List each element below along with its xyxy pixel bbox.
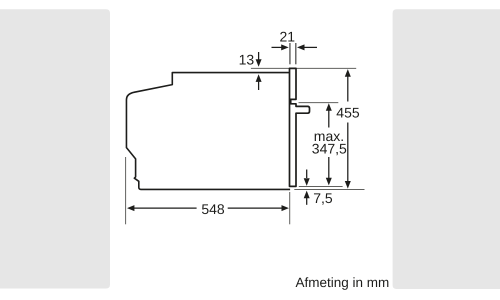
dimension 455 line — [345, 69, 351, 189]
dimension 21 right arrow — [297, 44, 317, 50]
right gray panel — [393, 9, 500, 289]
extension line 548 left (x=125.6) — [125, 157, 127, 224]
oven door + control panel + handle — [290, 68, 310, 186]
svg-text:455: 455 — [336, 105, 360, 121]
svg-text:Afmeting in mm: Afmeting in mm — [296, 275, 390, 290]
extension line 21 left (x=289.95) — [289, 43, 291, 64]
oven body outline — [126, 73, 290, 190]
extension line top (13/455 datum, y=68.35) — [251, 67, 356, 69]
svg-text:13: 13 — [239, 51, 255, 67]
dimension 347,5 line — [326, 103, 332, 185]
dimension 21 left arrow — [272, 44, 289, 50]
svg-text:347,5: 347,5 — [312, 141, 347, 157]
dimension 7,5 up arrow — [304, 191, 310, 205]
svg-text:21: 21 — [280, 28, 296, 44]
extension line door-bottom datum (y=186.45) — [299, 185, 343, 187]
extension line 21 right (x=295.85) — [295, 43, 297, 64]
svg-text:548: 548 — [201, 201, 225, 217]
dimension 13 down arrow — [256, 52, 262, 67]
extension line body-bottom datum (y=189.45) — [294, 188, 364, 190]
left gray panel — [0, 9, 110, 288]
label max. 347,5 — [312, 128, 347, 157]
svg-text:7,5: 7,5 — [313, 190, 333, 206]
extension line handle-top datum (y=102.65) — [299, 102, 339, 104]
dimension 13 up arrow — [256, 74, 262, 90]
extension line 548 right (x=290.2) — [289, 192, 291, 224]
dimension 7,5 down arrow — [304, 170, 310, 186]
dimension 548 line — [127, 205, 289, 211]
